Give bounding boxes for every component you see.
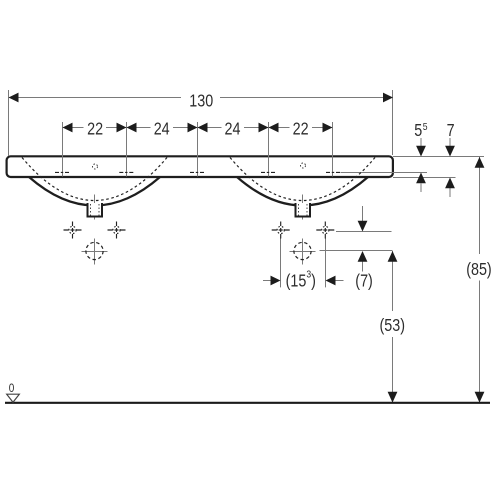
svg-text:22: 22 (293, 120, 309, 139)
svg-text:7: 7 (447, 122, 455, 141)
svg-text:(15: (15 (286, 272, 307, 291)
svg-text:24: 24 (225, 120, 241, 139)
svg-text:(7): (7) (355, 272, 373, 291)
svg-text:(53): (53) (380, 317, 406, 336)
svg-text:(85): (85) (466, 261, 492, 280)
svg-text:): ) (311, 272, 316, 291)
svg-text:0: 0 (9, 382, 15, 395)
svg-text:5: 5 (423, 121, 428, 133)
svg-text:22: 22 (87, 120, 103, 139)
svg-text:24: 24 (154, 120, 170, 139)
svg-text:130: 130 (189, 92, 213, 111)
svg-text:5: 5 (414, 122, 422, 141)
